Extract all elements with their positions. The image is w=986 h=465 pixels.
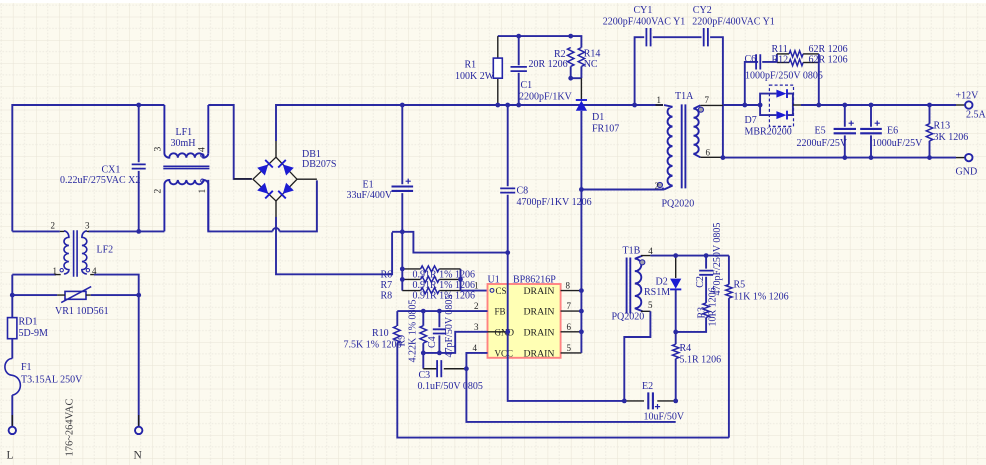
wire R2/R14 bottom jog xyxy=(571,66,582,78)
wire L branch vertical xyxy=(11,275,13,427)
wire R11/R12 left join xyxy=(776,54,778,63)
junction snubber C1 xyxy=(516,34,521,39)
svg-text:R11: R11 xyxy=(772,44,788,55)
svg-text:U1: U1 xyxy=(488,274,500,285)
wire FB row xyxy=(397,310,487,312)
svg-text:R13: R13 xyxy=(934,121,951,132)
resistor R8 zigzag xyxy=(421,288,440,294)
junction FB R9 xyxy=(421,309,426,314)
junction D2 R3 R4 xyxy=(673,330,678,335)
D7 dashed outline box xyxy=(769,85,793,126)
svg-text:2: 2 xyxy=(154,189,164,194)
junction sec-gnd E5 xyxy=(842,155,847,160)
svg-text:E5: E5 xyxy=(815,126,826,137)
E2 plus mark xyxy=(655,404,660,409)
svg-text:C6: C6 xyxy=(745,54,757,65)
svg-text:20R 1206: 20R 1206 xyxy=(529,59,568,70)
svg-text:7: 7 xyxy=(567,301,572,311)
svg-text:R4: R4 xyxy=(680,343,692,354)
wire T1A pin2 to drain node xyxy=(581,188,663,190)
svg-text:8: 8 xyxy=(566,281,571,291)
svg-text:R5: R5 xyxy=(734,279,746,290)
svg-text:10R 1206: 10R 1206 xyxy=(708,287,719,326)
svg-text:2200pF/1KV: 2200pF/1KV xyxy=(519,92,573,103)
svg-text:C1: C1 xyxy=(521,80,533,91)
wire LF2 bottom row right xyxy=(94,275,139,427)
resistor R4 zigzag xyxy=(673,344,679,358)
bridge rectifier DB1 diamond xyxy=(253,157,297,201)
wire GND row to E1 and jog to C8 xyxy=(392,232,508,253)
wire D2 bottom lead xyxy=(675,289,677,332)
terminal N xyxy=(135,427,142,434)
junction +bus CY1 xyxy=(632,103,637,108)
svg-text:3: 3 xyxy=(154,147,164,152)
wire C4 leads xyxy=(438,311,440,353)
svg-text:C8: C8 xyxy=(517,186,529,197)
svg-text:GND: GND xyxy=(956,167,978,178)
svg-text:4: 4 xyxy=(198,147,208,152)
capacitor E2 10uF/50V xyxy=(648,392,653,409)
capacitor C6 1000pF xyxy=(756,54,760,69)
junction sec-gnd R13 xyxy=(927,155,932,160)
resistor R11 zigzag xyxy=(777,53,789,55)
svg-text:RD1: RD1 xyxy=(19,317,38,328)
resistor R2 zigzag xyxy=(568,48,574,67)
svg-text:DRAIN: DRAIN xyxy=(523,327,554,338)
svg-text:R3: R3 xyxy=(697,307,708,319)
svg-text:E1: E1 xyxy=(363,180,374,191)
wire R9/C4 bottom row to GND pin xyxy=(423,332,487,353)
wire T1B pin5 to gnd/E2 xyxy=(624,311,650,401)
junction out E6 xyxy=(869,103,874,108)
svg-text:DRAIN: DRAIN xyxy=(523,286,554,297)
svg-text:5: 5 xyxy=(567,343,572,353)
junction R6 left xyxy=(400,267,405,272)
wire CX1 leads xyxy=(138,105,140,231)
capacitor C3 0.1uF xyxy=(437,360,441,377)
svg-text:PQ2020: PQ2020 xyxy=(662,199,695,210)
svg-text:+12V: +12V xyxy=(956,91,980,102)
capacitor C8 xyxy=(500,188,515,192)
DB1 pin stubs xyxy=(234,141,317,217)
LF2 polarity dot pin 1 xyxy=(60,269,63,272)
LF1 core lines xyxy=(163,166,209,168)
svg-text:0.1uF/50V 0805: 0.1uF/50V 0805 xyxy=(418,381,483,392)
svg-text:VR1 10D561: VR1 10D561 xyxy=(55,306,109,317)
T1A core lines xyxy=(682,104,686,188)
terminal L xyxy=(9,427,16,434)
resistor R5 zigzag xyxy=(726,285,732,299)
wire R3 bottom lead and row to D2 xyxy=(676,317,706,332)
wire LF2 bottom row left xyxy=(12,274,56,276)
junction R7 left xyxy=(400,277,405,282)
junction +bus R1 xyxy=(495,103,500,108)
junction +bus C1 xyxy=(516,103,521,108)
wire R9 leads xyxy=(422,311,424,353)
terminal stub L xyxy=(11,415,13,427)
wire AC return LF1-bottom to bridge-right riser xyxy=(208,180,317,232)
svg-text:FR107: FR107 xyxy=(592,124,619,135)
junction R9 bottom xyxy=(421,351,426,356)
transformer T1B winding xyxy=(635,256,643,312)
svg-text:T3.15AL 250V: T3.15AL 250V xyxy=(21,375,83,386)
wire R11/R12 right riser xyxy=(818,54,820,105)
T1A polarity dot pin 7 xyxy=(698,107,703,112)
junction out C6 xyxy=(742,103,747,108)
svg-text:R10: R10 xyxy=(372,328,389,339)
D1 top pin xyxy=(580,78,582,99)
svg-text:4: 4 xyxy=(92,266,97,276)
svg-text:6: 6 xyxy=(706,148,711,158)
D7 output pin stub xyxy=(793,104,801,106)
capacitor E1 33uF/400V xyxy=(392,187,414,191)
E6 plus mark xyxy=(875,121,880,126)
svg-text:L: L xyxy=(7,450,14,462)
E1 plus mark xyxy=(406,179,411,184)
resistor R9 zigzag xyxy=(420,326,427,343)
T1B polarity dot pin 4 xyxy=(640,260,645,265)
transformer T1A primary winding xyxy=(664,105,673,190)
diode D7 top half MBR20200 xyxy=(776,89,787,98)
thermistor RD1 body xyxy=(8,318,17,339)
wire LF2 top row xyxy=(12,230,164,232)
wire R6-R8 right bus xyxy=(460,269,462,291)
DB1 diode top-left xyxy=(257,160,273,176)
svg-text:4700pF/1KV 1206: 4700pF/1KV 1206 xyxy=(517,197,592,208)
svg-text:R6: R6 xyxy=(381,270,393,281)
capacitor C2 xyxy=(699,271,713,275)
diode D2 RS1M xyxy=(670,279,681,290)
wire R4 bottom lead xyxy=(675,359,677,401)
junction C4 bottom xyxy=(437,351,442,356)
svg-text:176~264VAC: 176~264VAC xyxy=(65,399,76,457)
LF2 polarity dot pin 4 xyxy=(86,269,89,272)
LF1 polarity dot pin 1 xyxy=(201,179,204,182)
junction +bus CX1 xyxy=(136,103,141,108)
junction +bus E1 xyxy=(400,103,405,108)
svg-text:1000uF/25V: 1000uF/25V xyxy=(872,138,923,149)
wire C3 branch riser xyxy=(422,353,424,369)
svg-text:1: 1 xyxy=(198,189,208,194)
svg-text:DRAIN: DRAIN xyxy=(523,349,554,360)
junction U1 gnd pin xyxy=(505,329,510,334)
svg-text:R7: R7 xyxy=(381,280,393,291)
capacitor CX1 xyxy=(132,164,146,168)
junction gnd C8 bottom xyxy=(505,250,510,255)
svg-text:62R 1206: 62R 1206 xyxy=(809,44,848,55)
wire secondary output bus pin7 to D7 xyxy=(723,104,760,106)
resistor R7 leads xyxy=(402,278,460,280)
svg-text:T1A: T1A xyxy=(675,91,694,102)
junction vr1 left xyxy=(10,293,15,298)
svg-text:D7: D7 xyxy=(745,115,757,126)
resistor R7 zigzag xyxy=(421,276,440,282)
wire VCC pin riser xyxy=(466,353,675,422)
U1 right pin stubs xyxy=(561,291,582,353)
svg-text:E2: E2 xyxy=(642,381,653,392)
capacitor CY1 xyxy=(646,28,650,46)
svg-text:T1B: T1B xyxy=(623,246,641,257)
svg-text:FB: FB xyxy=(495,307,506,317)
svg-text:R9: R9 xyxy=(397,335,408,347)
terminal stub N xyxy=(138,415,140,427)
wire secondary gnd bus xyxy=(723,157,956,159)
svg-text:470pF/250V 0805: 470pF/250V 0805 xyxy=(712,223,723,296)
LF2 core lines xyxy=(74,230,78,277)
capacitor CY2 xyxy=(704,28,708,46)
wire D7 anode side bus xyxy=(760,94,776,116)
wire E6 leads xyxy=(870,105,872,158)
svg-text:7.5K 1% 1206: 7.5K 1% 1206 xyxy=(344,340,402,351)
capacitor E6 1000uF/25V xyxy=(860,129,882,133)
resistor R1 body (box) xyxy=(493,58,502,78)
junction gnd E1 bottom xyxy=(400,229,405,234)
svg-text:3: 3 xyxy=(474,322,479,332)
terminal GND xyxy=(965,154,972,161)
svg-text:VCC: VCC xyxy=(495,349,514,359)
resistor R14 zigzag xyxy=(578,48,584,67)
junction out E5 xyxy=(842,103,847,108)
wire T1B pin4 row xyxy=(650,255,729,257)
junction drain p6 xyxy=(579,329,584,334)
D2 top pin xyxy=(675,256,677,278)
svg-text:CY2: CY2 xyxy=(693,5,712,16)
wire CY1-CY2 link xyxy=(653,36,702,38)
svg-text:10uF/50V: 10uF/50V xyxy=(644,411,685,422)
svg-text:MBR20200: MBR20200 xyxy=(745,127,792,138)
T1B pin stubs xyxy=(641,256,650,312)
svg-text:5: 5 xyxy=(648,300,653,310)
svg-text:2200pF/400VAC Y1: 2200pF/400VAC Y1 xyxy=(692,17,775,28)
svg-text:11K 1% 1206: 11K 1% 1206 xyxy=(734,291,789,302)
junction +bus C8 xyxy=(505,103,510,108)
wire CS row to chip xyxy=(461,290,488,292)
inductor LF2 common-mode choke windings xyxy=(64,231,69,274)
svg-text:D2: D2 xyxy=(656,276,668,287)
svg-text:CY1: CY1 xyxy=(634,5,653,16)
wire bridge-top riser to +bus xyxy=(276,105,663,141)
svg-text:7: 7 xyxy=(705,95,710,105)
svg-text:C3: C3 xyxy=(419,370,431,381)
wire R13 leads xyxy=(929,105,931,158)
svg-text:2200pF/400VAC Y1: 2200pF/400VAC Y1 xyxy=(603,17,686,28)
junction E2 right xyxy=(673,399,678,404)
junction C3 right xyxy=(464,366,469,371)
svg-text:R12: R12 xyxy=(772,55,789,66)
diode D1 FR107 xyxy=(576,100,587,111)
wire E5 leads xyxy=(844,105,846,158)
junction drain p7 xyxy=(579,309,584,314)
wire R1 riser xyxy=(497,36,499,105)
svg-text:E6: E6 xyxy=(887,126,898,137)
wire R10 feedback branch xyxy=(397,311,729,438)
wire R5 bottom riser to FB loop xyxy=(728,298,730,438)
junction out R11R12 xyxy=(816,103,821,108)
svg-text:2.5A: 2.5A xyxy=(966,110,986,121)
svg-text:PQ2020: PQ2020 xyxy=(612,312,645,323)
wire R2 bottom lead xyxy=(570,66,572,78)
LF2 pin stubs bottom xyxy=(55,274,94,276)
junction drain T1A xyxy=(579,187,584,192)
transformer T1A secondary winding xyxy=(694,105,701,157)
wire bridge-bottom to GND riser xyxy=(276,217,392,274)
svg-text:C2: C2 xyxy=(695,276,706,288)
svg-text:100K 2W: 100K 2W xyxy=(455,71,495,82)
wire D7 cathode side bus xyxy=(788,94,793,116)
svg-text:4: 4 xyxy=(648,246,653,256)
diode D7 bottom half MBR20200 xyxy=(776,111,787,120)
svg-text:2: 2 xyxy=(51,220,56,230)
svg-text:4.22K 1% 0805: 4.22K 1% 0805 xyxy=(407,299,418,362)
junction out D7in xyxy=(758,103,763,108)
LF2 pin stubs top xyxy=(60,230,89,232)
svg-text:0.91R 1% 1206: 0.91R 1% 1206 xyxy=(413,270,476,281)
wire C8 leads xyxy=(507,105,509,253)
svg-text:N: N xyxy=(134,450,143,462)
svg-text:CX1: CX1 xyxy=(102,165,121,176)
GND terminal stub xyxy=(956,157,965,159)
svg-text:33uF/400V: 33uF/400V xyxy=(347,190,393,201)
junction R7 right xyxy=(458,277,463,282)
junction snubber R2 xyxy=(568,34,573,39)
svg-text:1: 1 xyxy=(53,266,58,276)
C3 lead wires xyxy=(423,368,466,370)
svg-text:RS1M: RS1M xyxy=(644,287,670,298)
capacitor E5 2200uF/25V xyxy=(834,129,856,133)
DB1 diode bottom-right xyxy=(278,183,294,199)
resistor R3 zigzag xyxy=(703,303,709,317)
junction vr1 right xyxy=(136,293,141,298)
wire R4 top lead xyxy=(675,332,677,344)
svg-text:1: 1 xyxy=(657,95,662,105)
svg-text:2: 2 xyxy=(474,301,479,311)
svg-text:47pF/50V 0805: 47pF/50V 0805 xyxy=(444,295,455,358)
svg-text:D1: D1 xyxy=(592,112,604,123)
wire D1 anode to drain node xyxy=(580,111,582,190)
transformer T1B core lines xyxy=(627,258,631,314)
terminal +12V xyxy=(965,101,972,108)
svg-text:3: 3 xyxy=(85,220,90,230)
wire VR1 row xyxy=(12,294,138,296)
resistor R8 leads xyxy=(402,290,460,292)
+12V terminal stub xyxy=(956,104,965,106)
E2 pin stubs xyxy=(624,400,675,402)
junction sec-gnd E6 xyxy=(869,155,874,160)
wire top bus LF1 to bridge-left riser xyxy=(208,105,252,179)
junction R2R14 bottom xyxy=(568,76,573,81)
svg-text:1: 1 xyxy=(474,281,479,291)
R11 right lead xyxy=(803,53,819,55)
wire L-side top loop (left vertical + top bus to LF1) xyxy=(12,105,164,231)
E5 plus mark xyxy=(849,121,854,126)
svg-text:DRAIN: DRAIN xyxy=(523,307,554,318)
fuse F1 symbol xyxy=(5,359,20,396)
svg-text:1000pF/250V 0805: 1000pF/250V 0805 xyxy=(745,71,823,82)
svg-text:0.91R 1% 1206: 0.91R 1% 1206 xyxy=(413,280,476,291)
wire CY2 right riser to secondary gnd xyxy=(710,37,723,157)
junction FB C4 xyxy=(437,309,442,314)
wire R5 top lead xyxy=(728,256,730,285)
svg-text:5.1R 1206: 5.1R 1206 xyxy=(680,354,722,365)
junction E2 left xyxy=(622,399,627,404)
wire E1 leads xyxy=(401,105,403,232)
junction drain p8 xyxy=(579,288,584,293)
T1A pin stubs xyxy=(656,105,723,157)
capacitor C1 xyxy=(511,67,527,71)
U1 GND pin line into chip xyxy=(488,331,508,333)
svg-text:2200uF/25V: 2200uF/25V xyxy=(797,138,848,149)
wire snubber top bus xyxy=(498,36,582,47)
svg-text:3K 1206: 3K 1206 xyxy=(934,132,969,143)
VR1 pin stubs xyxy=(57,294,90,296)
wire hop over bridge-bottom riser xyxy=(273,228,280,231)
LF1 polarity dot pin 4 xyxy=(201,154,204,157)
junction lf2 cx1 bottom xyxy=(136,229,141,234)
svg-text:R8: R8 xyxy=(381,291,393,302)
inductor LF1 common-mode choke windings xyxy=(164,105,208,158)
svg-text:30mH: 30mH xyxy=(171,138,196,149)
wire drain bus xyxy=(580,190,582,353)
resistor R10 zigzag xyxy=(394,326,401,343)
svg-text:CS: CS xyxy=(496,286,507,296)
svg-text:62R 1206: 62R 1206 xyxy=(809,55,848,66)
svg-text:NC: NC xyxy=(584,59,598,70)
resistor R13 zigzag xyxy=(926,124,932,141)
U1 pin 1 inversion bubble xyxy=(490,289,494,293)
svg-text:DB207S: DB207S xyxy=(302,159,336,170)
wire CY1 left riser xyxy=(635,37,645,105)
R12 right lead xyxy=(803,62,819,64)
junction out R13 xyxy=(927,103,932,108)
resistor R12 zigzag xyxy=(777,62,789,64)
svg-text:5D-9M: 5D-9M xyxy=(19,328,49,339)
svg-text:0.22uF/275VAC X2: 0.22uF/275VAC X2 xyxy=(60,175,140,186)
svg-text:BP86216P: BP86216P xyxy=(513,274,556,285)
DB1 diode bottom-left xyxy=(257,183,273,199)
junction sec-gnd CY2 xyxy=(721,155,726,160)
op-amp U1 BP86216P body xyxy=(488,284,561,358)
varistor VR1 body xyxy=(65,291,86,299)
svg-text:LF2: LF2 xyxy=(97,245,114,256)
wire R6-R8 left bus xyxy=(401,232,403,291)
wire C6 branch xyxy=(745,62,777,105)
resistor R6 zigzag xyxy=(421,266,440,272)
junction T1B C2 xyxy=(704,253,709,258)
svg-text:R1: R1 xyxy=(465,60,477,71)
svg-text:F1: F1 xyxy=(21,362,32,373)
wire GND riser through chip to E2 row xyxy=(508,253,625,401)
wire D7 output to +12V xyxy=(801,104,956,106)
svg-text:6: 6 xyxy=(567,322,572,332)
capacitor C4 xyxy=(433,329,446,333)
svg-text:4: 4 xyxy=(473,343,478,353)
wire C2 leads xyxy=(705,256,707,303)
resistor R6 leads xyxy=(402,268,460,270)
svg-text:LF1: LF1 xyxy=(176,127,193,138)
junction T1B D2 xyxy=(673,253,678,258)
T1A polarity dot pin 2 xyxy=(657,182,662,187)
wire C1 leads xyxy=(518,36,520,105)
DB1 diode top-right xyxy=(278,160,294,176)
svg-text:C4: C4 xyxy=(427,336,438,348)
